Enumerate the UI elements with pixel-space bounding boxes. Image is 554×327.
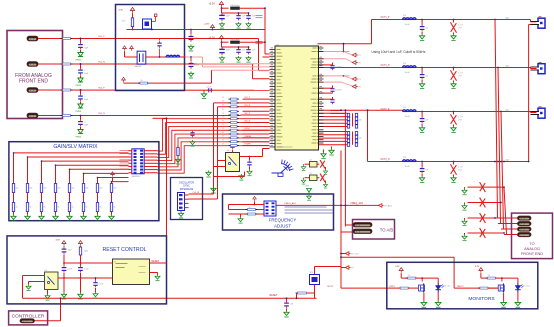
svg-text:PESDL: PESDL bbox=[76, 111, 82, 113]
svg-text:10k: 10k bbox=[100, 188, 103, 190]
svg-text:10uH: 10uH bbox=[405, 24, 410, 26]
svg-text:RSTV: RSTV bbox=[390, 286, 396, 288]
svg-text:1k: 1k bbox=[72, 207, 74, 209]
svg-text:RSTV: RSTV bbox=[328, 286, 334, 288]
svg-text:10k: 10k bbox=[44, 188, 47, 190]
svg-text:OUT2_P: OUT2_P bbox=[381, 109, 390, 111]
svg-text:3.3V: 3.3V bbox=[395, 266, 400, 268]
svg-text:OUT1_P: OUT1_P bbox=[381, 17, 390, 19]
svg-text:PESDL: PESDL bbox=[76, 136, 82, 138]
svg-text:L-GRN: L-GRN bbox=[304, 186, 310, 188]
svg-text:U6: U6 bbox=[45, 270, 47, 272]
svg-text:SDATA: SDATA bbox=[245, 135, 252, 138]
svg-text:MONITORS: MONITORS bbox=[468, 296, 495, 302]
svg-text:C48: C48 bbox=[290, 304, 293, 306]
svg-text:0.1uF: 0.1uF bbox=[99, 284, 105, 286]
svg-text:RX_Out: RX_Out bbox=[443, 285, 451, 288]
svg-text:TP_ADJ: TP_ADJ bbox=[384, 204, 392, 207]
svg-text:FREQ_ADJ: FREQ_ADJ bbox=[285, 202, 296, 205]
svg-text:3.3V: 3.3V bbox=[56, 240, 61, 242]
svg-text:10uH: 10uH bbox=[405, 72, 410, 74]
svg-text:TO A/B: TO A/B bbox=[380, 228, 394, 233]
svg-text:0.1uF: 0.1uF bbox=[207, 87, 213, 89]
svg-text:ANALOG: ANALOG bbox=[524, 247, 540, 251]
svg-text:Y2: Y2 bbox=[310, 173, 312, 175]
svg-text:1k: 1k bbox=[408, 275, 410, 277]
svg-text:RESET: RESET bbox=[152, 261, 160, 263]
svg-text:out: out bbox=[506, 108, 509, 111]
svg-text:0: 0 bbox=[474, 212, 475, 214]
svg-text:10k: 10k bbox=[16, 188, 19, 190]
svg-text:0.1uF: 0.1uF bbox=[458, 73, 464, 75]
svg-text:TP_Out: TP_Out bbox=[351, 253, 359, 256]
svg-text:1k: 1k bbox=[114, 207, 116, 209]
svg-text:0.1uF: 0.1uF bbox=[458, 117, 464, 119]
svg-text:RESET CONTROL: RESET CONTROL bbox=[102, 247, 146, 253]
svg-text:1k: 1k bbox=[488, 275, 490, 277]
svg-text:+3.3V: +3.3V bbox=[209, 3, 216, 6]
svg-text:IN1_N: IN1_N bbox=[245, 105, 251, 107]
svg-text:out: out bbox=[506, 64, 509, 67]
svg-text:1k: 1k bbox=[44, 207, 46, 209]
svg-text:1k: 1k bbox=[86, 207, 88, 209]
svg-text:OUT2_N: OUT2_N bbox=[381, 159, 390, 161]
svg-text:3.3V: 3.3V bbox=[119, 10, 124, 12]
svg-text:TX_Out: TX_Out bbox=[523, 285, 530, 288]
svg-text:4.7k: 4.7k bbox=[122, 21, 126, 23]
svg-text:10uH: 10uH bbox=[405, 166, 410, 168]
svg-text:0.1uF: 0.1uF bbox=[194, 65, 200, 67]
svg-text:+1.8V: +1.8V bbox=[204, 24, 210, 26]
svg-text:FRONT END: FRONT END bbox=[19, 79, 48, 85]
svg-text:100k: 100k bbox=[84, 251, 88, 253]
svg-text:10k: 10k bbox=[359, 138, 362, 140]
svg-text:+3.3V: +3.3V bbox=[209, 37, 216, 40]
svg-text:TO: TO bbox=[529, 242, 534, 246]
svg-text:0.1uF: 0.1uF bbox=[458, 167, 464, 169]
svg-text:0: 0 bbox=[474, 181, 475, 183]
svg-text:10k: 10k bbox=[114, 188, 117, 190]
svg-text:0: 0 bbox=[474, 197, 475, 199]
svg-text:1k: 1k bbox=[100, 207, 102, 209]
svg-text:10k: 10k bbox=[30, 188, 33, 190]
svg-text:FRONT END: FRONT END bbox=[521, 252, 543, 256]
svg-text:IN1_N: IN1_N bbox=[99, 62, 106, 64]
svg-text:out: out bbox=[506, 16, 509, 19]
svg-text:IN2_N: IN2_N bbox=[99, 113, 106, 115]
svg-text:IN1_P: IN1_P bbox=[245, 97, 251, 99]
svg-text:ABM3B: ABM3B bbox=[135, 65, 142, 68]
svg-text:1k: 1k bbox=[249, 207, 251, 209]
svg-text:RESET: RESET bbox=[270, 294, 279, 297]
svg-text:OUT1_N: OUT1_N bbox=[381, 65, 390, 67]
svg-text:Using 10uH and 1uF, Cutoff is: Using 10uH and 1uF, Cutoff is 50kHz bbox=[372, 50, 426, 54]
svg-text:GAIN/SLV: GAIN/SLV bbox=[132, 175, 142, 178]
svg-text:CLK_IN: CLK_IN bbox=[193, 192, 200, 194]
svg-text:Y2: Y2 bbox=[310, 160, 312, 162]
svg-text:0.033uF: 0.033uF bbox=[335, 67, 342, 69]
svg-text:ADJUST: ADJUST bbox=[274, 224, 291, 229]
svg-text:IN2_P: IN2_P bbox=[99, 88, 106, 90]
svg-text:IN2_P: IN2_P bbox=[245, 113, 251, 115]
svg-text:0.1uF: 0.1uF bbox=[84, 269, 90, 271]
svg-text:10k: 10k bbox=[72, 188, 75, 190]
svg-text:GAIN/SLV MATRIX: GAIN/SLV MATRIX bbox=[53, 144, 98, 150]
svg-text:10k: 10k bbox=[86, 188, 89, 190]
svg-text:out: out bbox=[506, 158, 509, 161]
svg-text:INTERFACE: INTERFACE bbox=[180, 188, 194, 191]
svg-text:0.1uF: 0.1uF bbox=[68, 269, 74, 271]
svg-text:0.033uF: 0.033uF bbox=[335, 90, 342, 92]
svg-text:3.3V: 3.3V bbox=[475, 266, 480, 268]
svg-text:10uH: 10uH bbox=[405, 116, 410, 118]
svg-text:10k: 10k bbox=[58, 188, 61, 190]
svg-text:1k: 1k bbox=[30, 207, 32, 209]
svg-text:IN1_P: IN1_P bbox=[99, 36, 106, 38]
svg-text:SCLK: SCLK bbox=[245, 128, 251, 130]
svg-text:0.1uF: 0.1uF bbox=[458, 25, 464, 27]
svg-text:1k: 1k bbox=[58, 207, 60, 209]
svg-text:PDWN: PDWN bbox=[245, 144, 252, 146]
svg-text:1k: 1k bbox=[16, 207, 18, 209]
svg-text:FB 60ohm: FB 60ohm bbox=[231, 5, 241, 7]
svg-text:PESDL: PESDL bbox=[76, 85, 82, 87]
svg-text:FREQUENCY: FREQUENCY bbox=[269, 218, 297, 223]
svg-text:PESDL: PESDL bbox=[76, 59, 82, 61]
svg-text:1k: 1k bbox=[141, 80, 143, 82]
svg-text:FB 60ohm: FB 60ohm bbox=[231, 39, 241, 41]
svg-text:10k: 10k bbox=[359, 120, 362, 122]
svg-text:0: 0 bbox=[474, 227, 475, 229]
svg-text:FREQ_ADJ: FREQ_ADJ bbox=[351, 202, 364, 205]
svg-text:TRSTV: TRSTV bbox=[457, 286, 465, 288]
svg-text:IN2_N: IN2_N bbox=[245, 121, 251, 123]
